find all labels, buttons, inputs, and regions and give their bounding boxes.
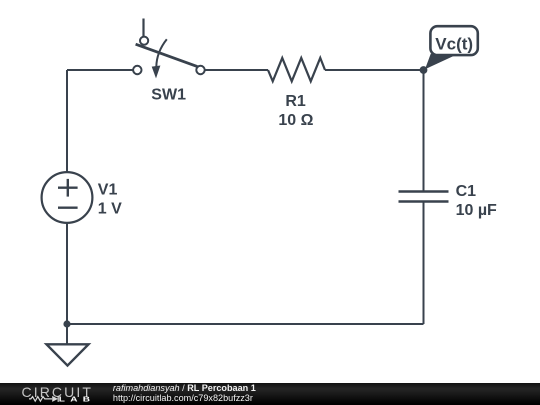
wire top-left horizontal [67, 69, 133, 71]
wire left vertical upper [66, 70, 68, 172]
resistor R1 [268, 58, 325, 81]
svg-text:R1: R1 [285, 93, 306, 110]
svg-text:rafimahdiansyah / RL Percobaan: rafimahdiansyah / RL Percobaan 1 [113, 383, 256, 393]
wire left vertical lower [66, 223, 68, 345]
node top-right junction [420, 66, 428, 74]
svg-text:http://circuitlab.com/c79x82bu: http://circuitlab.com/c79x82bufzz3r [113, 393, 253, 403]
voltage label flag Vc(t) [425, 26, 478, 69]
wire right vertical lower [423, 202, 425, 325]
svg-text:Vc(t): Vc(t) [435, 35, 473, 54]
capacitor C1 [399, 192, 449, 202]
switch SW1 [133, 19, 205, 79]
voltage source V1 [42, 172, 93, 223]
svg-text:10 Ω: 10 Ω [278, 112, 313, 129]
wire right vertical upper [423, 70, 425, 192]
logo mini schematic resistor and diode [29, 396, 58, 402]
svg-text:10 µF: 10 µF [456, 202, 497, 219]
svg-text:LAB: LAB [59, 395, 95, 404]
svg-text:C1: C1 [456, 183, 477, 200]
footer bar [0, 383, 540, 405]
svg-text:1 V: 1 V [98, 200, 122, 217]
wire bottom horizontal [67, 323, 424, 325]
node bottom-left junction [63, 320, 70, 327]
wire switch to resistor [205, 69, 268, 71]
wire resistor to node [325, 69, 424, 71]
ground [47, 344, 89, 365]
svg-text:SW1: SW1 [151, 87, 186, 104]
svg-text:V1: V1 [98, 182, 118, 199]
